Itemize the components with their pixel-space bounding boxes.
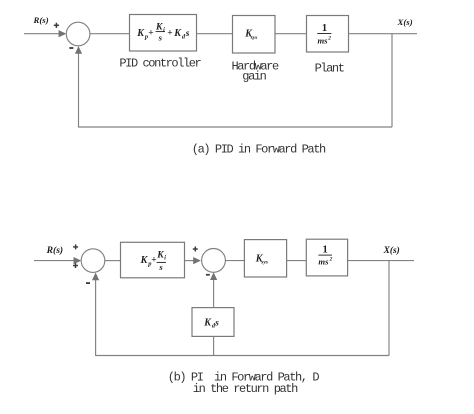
svg-text:ms: ms xyxy=(318,35,329,45)
svg-text:K: K xyxy=(156,251,164,261)
wire plant to output X(s) (a) xyxy=(349,33,418,35)
arrowhead into summer (a) xyxy=(59,30,67,37)
summing junction 1 (b) xyxy=(81,249,105,273)
svg-text:X(s): X(s) xyxy=(383,245,400,256)
block hardware gain Ksys (a) xyxy=(233,16,276,54)
svg-text:s: s xyxy=(158,33,163,43)
plus sign at summer input (a) xyxy=(54,23,59,28)
svg-text:sys: sys xyxy=(250,35,258,41)
svg-text:PID controller: PID controller xyxy=(119,57,201,71)
wire feedback takeoff down (a) xyxy=(391,34,393,127)
svg-text:X(s): X(s) xyxy=(397,17,413,27)
svg-text:K: K xyxy=(155,22,163,32)
value label 1/ms^2 (a) xyxy=(317,23,331,45)
arrowhead feedback into summer 1 (b) xyxy=(92,273,99,281)
svg-text:R(s): R(s) xyxy=(33,15,49,25)
plus sign at summer 2 input (b) xyxy=(193,247,198,252)
svg-text:1: 1 xyxy=(323,245,328,256)
wire feedback up to summer (a) xyxy=(78,52,80,128)
wire PI block to summer 2 (b) xyxy=(185,260,195,262)
svg-text:s: s xyxy=(185,29,190,39)
value label Kp + Ki/s (b) xyxy=(140,251,167,272)
svg-text:gain: gain xyxy=(242,70,266,84)
svg-text:+: + xyxy=(148,29,153,39)
arrowhead Kds into summer 2 (b) xyxy=(210,272,217,280)
arrowhead feedback into summer (a) xyxy=(75,46,82,54)
wire hardware gain to plant block (a) xyxy=(275,33,307,35)
svg-text:+: + xyxy=(151,256,156,266)
svg-text:sys: sys xyxy=(260,260,268,266)
wire input R(s) to summer (a) xyxy=(24,33,60,35)
svg-text:s: s xyxy=(214,317,219,327)
block PID controller (a) xyxy=(130,15,197,52)
wire Ksys to plant block (b) xyxy=(287,260,307,262)
block PI controller Kp + Ki/s (b) xyxy=(121,242,185,277)
wire branch from bottom run up to Kds block (b) xyxy=(213,336,215,355)
wire input R(s) to summer 1 (b) xyxy=(34,260,75,262)
value label Ksys (b) xyxy=(255,254,268,266)
svg-text:s: s xyxy=(158,262,163,272)
svg-text:R(s): R(s) xyxy=(46,245,64,256)
minus sign at summer 1 feedback input (b) xyxy=(86,282,90,284)
minus sign at summer 2 feedback input (b) xyxy=(206,274,210,276)
label Hardware gain (a) xyxy=(232,59,279,83)
wire summer to PID block (a) xyxy=(90,33,130,35)
wire summer 1 to PI block (b) xyxy=(105,260,121,262)
wire feedback takeoff down (b) xyxy=(388,261,390,356)
block derivative Kds (b) xyxy=(192,308,234,337)
svg-text:ms: ms xyxy=(318,257,329,267)
svg-text:Plant: Plant xyxy=(315,61,344,75)
svg-text:2: 2 xyxy=(329,257,333,263)
wire Kds block up to summer 2 (b) xyxy=(213,278,215,308)
plus sign below input (b) xyxy=(73,263,78,268)
minus sign at summer feedback input (a) xyxy=(69,47,73,49)
block plant 1/ms^2 (b) xyxy=(306,239,347,276)
summing junction (a) xyxy=(66,22,90,46)
svg-text:+: + xyxy=(167,29,172,39)
wire feedback bottom run (a) xyxy=(79,126,393,128)
block hardware gain Ksys (b) xyxy=(244,240,286,277)
wire feedback up to summer 1 (b) xyxy=(95,278,97,356)
value label Kp + Ki/s + Kds (a) xyxy=(136,22,189,42)
wire summer 2 to Ksys block (b) xyxy=(225,260,244,262)
svg-text:in the return path: in the return path xyxy=(193,382,298,396)
svg-text:2: 2 xyxy=(327,35,331,41)
svg-text:1: 1 xyxy=(322,23,327,34)
value label Kds (b) xyxy=(203,317,219,329)
arrowhead into summer 2 (b) xyxy=(193,257,201,264)
summing junction 2 (b) xyxy=(202,249,226,273)
wire feedback bottom run (b) xyxy=(96,355,389,357)
value label 1/ms^2 (b) xyxy=(318,245,332,267)
block plant 1/ms^2 (a) xyxy=(307,16,349,53)
wire plant to output X(s) (b) xyxy=(348,260,414,262)
svg-text:(a) PID in Forward Path: (a) PID in Forward Path xyxy=(192,143,326,157)
value label Ksys (a) xyxy=(244,29,257,41)
arrowhead into summer 1 (b) xyxy=(74,257,82,264)
plus sign above input (b) xyxy=(73,244,78,249)
wire PID block to hardware gain block (a) xyxy=(197,33,233,35)
